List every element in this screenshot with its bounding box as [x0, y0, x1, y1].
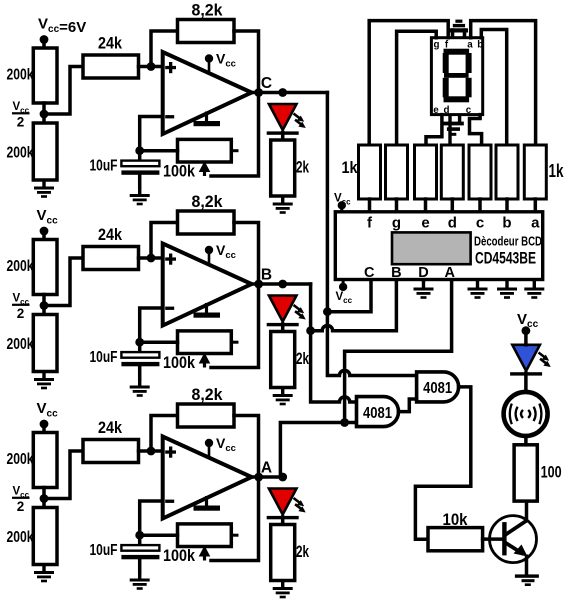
svg-text:a: a: [531, 215, 540, 232]
svg-text:10uF: 10uF: [90, 158, 118, 175]
svg-text:A: A: [444, 265, 455, 281]
svg-text:200k: 200k: [7, 145, 34, 162]
svg-text:d: d: [448, 215, 457, 232]
svg-text:2: 2: [17, 115, 25, 130]
svg-text:b: b: [502, 215, 511, 232]
svg-text:100k: 100k: [163, 163, 196, 181]
svg-text:2k: 2k: [296, 159, 310, 177]
svg-text:c: c: [476, 215, 484, 232]
svg-text:200k: 200k: [7, 336, 34, 353]
svg-text:100k: 100k: [163, 354, 196, 372]
svg-text:2: 2: [17, 306, 25, 321]
svg-text:200k: 200k: [7, 67, 34, 84]
svg-text:2k: 2k: [296, 543, 310, 561]
svg-text:B: B: [261, 267, 272, 284]
svg-text:8,2k: 8,2k: [192, 386, 224, 404]
svg-text:1k: 1k: [342, 159, 359, 177]
svg-text:g: g: [392, 215, 401, 232]
svg-text:e: e: [421, 215, 429, 232]
svg-text:2: 2: [17, 499, 25, 514]
svg-text:d: d: [444, 105, 450, 116]
svg-text:200k: 200k: [7, 529, 34, 546]
svg-text:4081: 4081: [423, 380, 452, 397]
svg-text:8,2k: 8,2k: [192, 2, 224, 20]
svg-text:c: c: [466, 105, 472, 116]
svg-text:1k: 1k: [549, 161, 565, 181]
svg-text:10k: 10k: [443, 511, 469, 529]
svg-text:200k: 200k: [7, 451, 34, 468]
svg-text:10uF: 10uF: [90, 349, 118, 366]
svg-text:CD4543BE: CD4543BE: [475, 248, 536, 267]
svg-text:D: D: [418, 265, 428, 281]
svg-text:24k: 24k: [98, 419, 123, 437]
svg-text:200k: 200k: [7, 258, 34, 275]
svg-text:B: B: [391, 265, 401, 281]
svg-text:2k: 2k: [296, 350, 310, 368]
svg-text:b: b: [477, 39, 483, 50]
svg-text:a: a: [467, 39, 473, 50]
svg-text:g: g: [434, 39, 440, 50]
svg-text:24k: 24k: [98, 226, 123, 244]
svg-text:4081: 4081: [363, 405, 392, 422]
svg-text:C: C: [261, 75, 272, 92]
svg-text:Dècodeur BCD: Dècodeur BCD: [474, 234, 542, 248]
svg-text:24k: 24k: [98, 35, 123, 53]
svg-text:10uF: 10uF: [90, 542, 118, 559]
svg-text:100k: 100k: [163, 547, 196, 565]
svg-text:8,2k: 8,2k: [192, 193, 224, 211]
svg-text:e: e: [433, 105, 439, 116]
svg-text:100: 100: [541, 464, 562, 482]
svg-text:A: A: [261, 460, 272, 477]
svg-text:C: C: [364, 265, 375, 281]
